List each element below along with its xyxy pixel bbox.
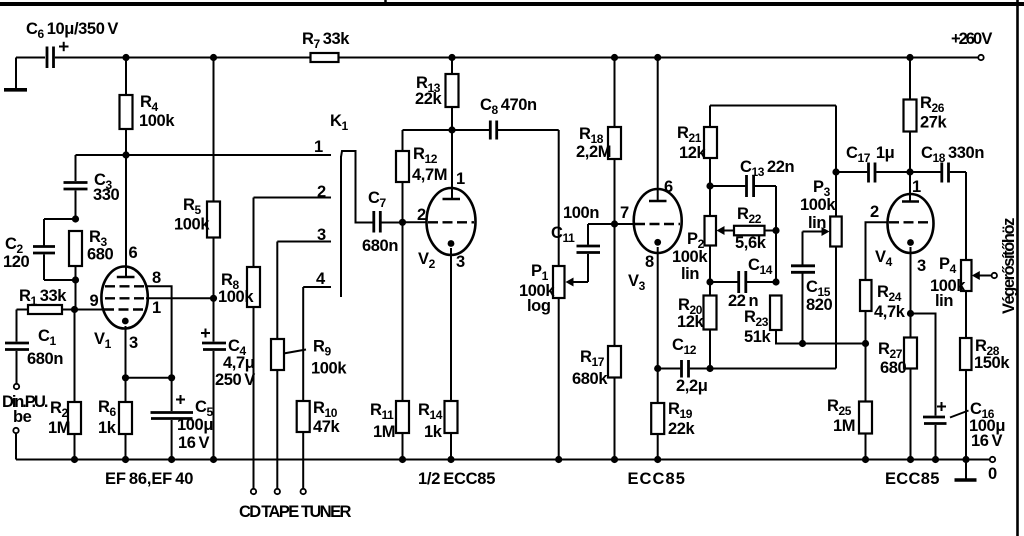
resistor R7	[311, 53, 339, 62]
potentiometer P2	[705, 186, 717, 282]
terminal input ground	[13, 428, 18, 433]
wire: +260V top supply rail	[55, 57, 978, 59]
border frame top	[0, 0, 1024, 4]
svg-text:R1 33k: R1 33k	[19, 287, 67, 308]
svg-text:8: 8	[152, 269, 161, 287]
svg-text:1: 1	[152, 299, 161, 317]
svg-text:C13 22n: C13 22n	[740, 158, 795, 179]
terminal output	[992, 273, 997, 278]
resistor R1	[17, 305, 103, 314]
tube V4 ECC85 envelope	[888, 194, 934, 253]
svg-text:ECC85: ECC85	[885, 470, 939, 488]
svg-text:4,7k: 4,7k	[874, 303, 906, 321]
resistor R24	[860, 280, 872, 344]
resistor R17	[608, 224, 621, 460]
svg-text:3: 3	[129, 334, 138, 352]
capacitor C3	[64, 155, 88, 219]
ground (top left)	[4, 88, 27, 92]
node: rail / V3 anode	[654, 54, 661, 61]
svg-text:1/2 ECC85: 1/2 ECC85	[418, 470, 495, 488]
capacitor C18	[910, 163, 966, 183]
svg-text:100n: 100n	[563, 204, 599, 222]
capacitor C12	[658, 360, 710, 378]
tube V1 EF86 envelope	[101, 267, 147, 329]
wire: K1 contact 4 line	[303, 286, 331, 288]
node: V4 anode / C17 / C18 / R26	[906, 168, 913, 175]
node: R13 / R12 / C8 / V2 anode	[448, 126, 455, 133]
V2 anode lead	[451, 130, 453, 199]
resistor R12	[396, 130, 452, 222]
wire: 0V bottom ground rail	[16, 459, 990, 461]
capacitor C6	[16, 42, 69, 68]
border frame right	[1016, 0, 1019, 536]
svg-text:CD TAPE TUNER: CD TAPE TUNER	[239, 503, 351, 521]
terminal 0	[990, 457, 995, 462]
node: rail / R18	[611, 54, 618, 61]
terminal input signal	[14, 384, 19, 389]
resistor R19	[651, 369, 664, 460]
capacitor C4	[201, 298, 226, 459]
svg-text:5,6k: 5,6k	[735, 234, 767, 252]
V4 anode plate	[902, 200, 919, 203]
node: V3 grid / R18 / R17 / C11	[611, 220, 618, 227]
potentiometer P4	[961, 172, 992, 460]
svg-text:7: 7	[620, 204, 629, 222]
svg-text:100k: 100k	[672, 248, 708, 266]
svg-text:16 V: 16 V	[178, 434, 209, 452]
wire: V1 cathode lead	[125, 326, 127, 378]
resistor R3	[69, 231, 82, 280]
svg-text:330: 330	[93, 186, 120, 204]
wire: tone network top line	[710, 105, 836, 107]
svg-text:1: 1	[912, 178, 921, 196]
capacitor C17	[836, 163, 910, 183]
wire: V2 cathode lead	[450, 248, 452, 460]
V2 anode plate	[443, 198, 461, 201]
svg-text:680n: 680n	[27, 350, 63, 368]
resistor R5	[207, 58, 220, 299]
tube V3 ECC85 envelope	[634, 189, 682, 253]
resistor R26	[904, 58, 917, 173]
svg-text:+260 V: +260 V	[951, 30, 992, 48]
svg-text:4: 4	[316, 270, 326, 288]
node: rail / R26	[906, 54, 913, 61]
switch K1 pole wiper	[341, 151, 373, 223]
svg-text:9: 9	[90, 292, 99, 310]
svg-text:22k: 22k	[668, 420, 696, 438]
label Din.P.U. be	[2, 393, 48, 426]
svg-text:R7 33k: R7 33k	[302, 30, 350, 51]
resistor R4	[120, 58, 133, 156]
svg-text:4,7M: 4,7M	[412, 166, 447, 184]
svg-text:6: 6	[129, 244, 138, 262]
resistor R13	[446, 58, 459, 131]
svg-text:2,2μ: 2,2μ	[676, 377, 707, 395]
capacitor C1	[5, 310, 29, 385]
node: rail / R4	[122, 54, 129, 61]
wire: pin 8 to cathode node	[146, 286, 172, 378]
wire: input ground to rail	[15, 433, 17, 459]
ground (bottom right)	[955, 460, 977, 481]
tube V2 1/2 ECC85 envelope	[427, 188, 476, 255]
svg-text:C8 470n: C8 470n	[480, 96, 537, 117]
node: C14 / R23 top	[772, 278, 779, 285]
resistor R8	[247, 198, 260, 489]
V4 cathode dot	[907, 239, 914, 246]
capacitor C14	[710, 271, 776, 293]
svg-text:1M: 1M	[48, 419, 70, 437]
resistor R14	[445, 401, 458, 433]
node: R2 / ground rail	[71, 456, 78, 463]
svg-text:12k: 12k	[679, 144, 707, 162]
svg-text:C17 1μ: C17 1μ	[846, 144, 894, 165]
svg-text:1: 1	[314, 138, 323, 156]
node: V3 cathode / R19 / C12	[654, 365, 661, 372]
wire: V3 cathode lead	[657, 247, 659, 369]
V1 anode plate	[117, 276, 135, 279]
svg-text:4,7μ: 4,7μ	[223, 354, 254, 372]
V3 grid dashed	[635, 223, 680, 225]
wire: V4 grid to R24	[866, 222, 889, 280]
node: R11 / rail	[399, 456, 406, 463]
resistor R21	[704, 106, 717, 187]
node: R17 / rail	[611, 456, 618, 463]
svg-text:3: 3	[917, 257, 926, 275]
resistor R11	[396, 222, 409, 459]
capacitor C2	[33, 219, 76, 280]
node: grid V1 / R1 / R2 / R3	[71, 306, 78, 313]
svg-text:3: 3	[456, 253, 465, 271]
V3 cathode dot	[654, 239, 661, 246]
svg-text:lin: lin	[681, 265, 699, 283]
potentiometer P3	[803, 217, 842, 369]
svg-text:be: be	[13, 408, 32, 426]
wire: pin 1 to R5/C4 node	[146, 297, 214, 299]
node: R21 / C13 / P2 top	[706, 182, 713, 189]
node: C5 / rail	[168, 456, 175, 463]
terminal TAPE	[275, 489, 280, 494]
svg-text:1k: 1k	[424, 423, 443, 441]
V1 grid g3 (pin 8) dashed	[105, 285, 146, 287]
node: C5 / pin8 line	[168, 374, 175, 381]
wire: K1 contact 3 line	[277, 241, 331, 243]
wire: C6 left to ground	[15, 58, 17, 89]
svg-text:150k: 150k	[974, 354, 1010, 372]
V2 grid dashed	[428, 221, 474, 223]
node: R28 / rail	[962, 456, 969, 463]
svg-text:12k: 12k	[677, 313, 705, 331]
resistor R20	[704, 282, 717, 369]
resistor R2	[68, 310, 81, 460]
capacitor C16	[911, 314, 969, 460]
potentiometer P1	[553, 130, 588, 460]
svg-text:100k: 100k	[800, 196, 836, 214]
node: R20 / P2 bottom / C14	[706, 278, 713, 285]
node: R6 / rail	[122, 456, 129, 463]
svg-text:250 V: 250 V	[215, 371, 255, 389]
wire: V2 grid stub	[403, 221, 428, 223]
V3 anode lead	[657, 58, 659, 202]
svg-text:680n: 680n	[362, 237, 398, 255]
node: cathode / R6	[122, 374, 129, 381]
svg-text:120: 120	[3, 253, 30, 271]
terminal +260V	[978, 55, 983, 60]
svg-text:EF 86,EF 40: EF 86,EF 40	[105, 470, 193, 488]
svg-text:100k: 100k	[218, 288, 254, 306]
node: R3 / C2 bottom	[72, 276, 79, 283]
capacitor C5	[151, 378, 194, 460]
node: P1 / rail	[555, 456, 562, 463]
node: C12 / R20 / P3 bottom	[706, 365, 713, 372]
wire: K1 contact 2 line	[254, 197, 332, 199]
svg-text:680k: 680k	[572, 370, 608, 388]
resistor R23	[770, 296, 803, 344]
svg-text:lin: lin	[808, 214, 826, 232]
V4 anode lead	[909, 172, 911, 202]
svg-text:680: 680	[880, 359, 907, 377]
capacitor C15	[791, 232, 815, 344]
wire: V3 grid stub	[615, 223, 635, 225]
node: rail / R5 top	[210, 54, 217, 61]
svg-text:100μ: 100μ	[177, 416, 213, 434]
V1 cathode dot	[122, 318, 129, 325]
capacitor C11	[577, 224, 615, 282]
svg-text:100k: 100k	[174, 216, 210, 234]
svg-text:0: 0	[988, 465, 997, 483]
wire: cathode link to C5	[126, 377, 172, 379]
V4 grid dashed	[889, 221, 932, 223]
svg-text:2: 2	[870, 203, 879, 221]
svg-text:lin: lin	[935, 292, 953, 310]
svg-text:log: log	[527, 297, 551, 315]
node: V4 cathode / R27 / C16	[907, 310, 914, 317]
capacitor C13	[710, 175, 776, 282]
switch K1 selector bar	[340, 156, 342, 297]
node: R25 / rail	[862, 456, 869, 463]
svg-text:16 V: 16 V	[971, 432, 1002, 450]
node: R5 / C4 / pin1	[210, 295, 217, 302]
node: C17 branch on P3 line	[832, 168, 839, 175]
svg-text:Végerősítőhöz: Végerősítőhöz	[1000, 218, 1018, 314]
node: C16 / rail	[932, 456, 939, 463]
terminal CD	[251, 489, 256, 494]
svg-text:C18 330n: C18 330n	[921, 144, 984, 165]
svg-text:2,2M: 2,2M	[576, 143, 611, 161]
svg-text:1k: 1k	[98, 419, 117, 437]
wire: V1 anode node to K1 contact 1	[76, 154, 332, 156]
svg-text:ECC85: ECC85	[628, 470, 685, 488]
svg-text:680: 680	[87, 246, 114, 264]
node: R24 / R25 / tone line	[862, 340, 869, 347]
wire: P3 top branch	[835, 106, 837, 217]
resistor R9	[271, 242, 306, 489]
resistor R18	[608, 58, 621, 225]
node: C3 / R3 / C2 top	[72, 215, 79, 222]
capacitor C8	[452, 121, 559, 140]
wire: C15/R23 to V4 grid node	[803, 343, 866, 345]
node: R14 / rail	[447, 456, 454, 463]
resistor R27	[904, 314, 917, 460]
resistor R28	[960, 338, 972, 370]
svg-text:51k: 51k	[744, 328, 772, 346]
svg-text:22k: 22k	[415, 90, 443, 108]
node: R19 / rail	[654, 456, 661, 463]
wire: V4 cathode lead	[910, 247, 912, 314]
svg-text:1: 1	[456, 170, 465, 188]
svg-text:47k: 47k	[313, 418, 341, 436]
wire: V1 anode lead	[125, 155, 127, 277]
svg-text:820: 820	[806, 296, 833, 314]
node: rail / R13	[448, 54, 455, 61]
V2 cathode dot	[448, 240, 455, 247]
V3 anode plate	[649, 200, 667, 203]
svg-text:1M: 1M	[373, 423, 395, 441]
resistor R6	[119, 378, 132, 460]
node: R27 / rail	[907, 456, 914, 463]
V1 grid g1 (pin 9) dashed	[104, 308, 146, 310]
svg-text:100k: 100k	[139, 112, 175, 130]
resistor R25	[859, 344, 872, 460]
node: C4 / rail	[210, 456, 217, 463]
wire: P3 bottom to C12 node	[710, 368, 836, 370]
node: V1 anode / R4 / K1 contact 1	[122, 151, 129, 158]
V1 grid g2 (pin 1) dashed	[105, 297, 146, 299]
svg-text:1M: 1M	[833, 417, 855, 435]
terminal TUNER	[301, 489, 306, 494]
node: V2 grid / R12 / R11 / C7	[399, 219, 406, 226]
capacitor C7	[374, 211, 403, 233]
wire: feedback node to grid node	[75, 280, 77, 310]
svg-text:6: 6	[664, 178, 673, 196]
resistor R10	[297, 287, 310, 489]
svg-text:27k: 27k	[920, 114, 948, 132]
node: R22 / C13-R23 line	[772, 227, 779, 234]
svg-text:8: 8	[645, 253, 654, 271]
svg-text:100k: 100k	[311, 360, 347, 378]
resistor R22 with wiper arrow	[717, 226, 777, 236]
node: R23 / C15 bottom	[799, 340, 806, 347]
